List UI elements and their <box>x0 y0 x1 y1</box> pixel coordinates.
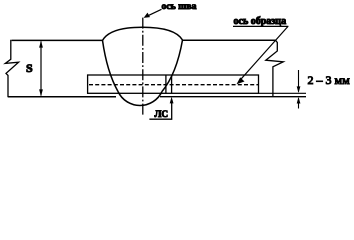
s top arrowhead <box>39 41 43 48</box>
dimension s line with arrows <box>40 42 42 96</box>
leader for ось шва <box>147 9 162 16</box>
plate bottom surface line (left of weld root) <box>8 96 116 98</box>
weld root arc (penetration bead) <box>118 92 162 106</box>
dimension 2-3 mm upper line <box>298 70 300 92</box>
right break (zigzag) line <box>266 40 284 97</box>
2-3 mm up arrowhead <box>297 97 301 104</box>
fusion line tick 1 <box>165 75 167 94</box>
specimen bottom line extension to dimension <box>259 92 307 94</box>
svg-text:ось шва: ось шва <box>162 1 197 12</box>
left break (zigzag) line <box>5 40 18 97</box>
leader for ось образца <box>239 26 288 81</box>
arrowhead of ЛС leader <box>170 97 174 104</box>
svg-text:S: S <box>26 61 33 75</box>
fusion line tick 2 <box>171 75 173 94</box>
svg-text:2 – 3 мм: 2 – 3 мм <box>308 73 351 87</box>
weld left fusion boundary <box>103 40 119 91</box>
weld axis centerline (dash-dot) <box>142 18 144 117</box>
s bottom arrowhead <box>39 89 43 96</box>
weld right fusion boundary <box>162 40 183 92</box>
underline / bracket of ЛС <box>149 100 171 119</box>
plate bottom surface line (right of weld root) with dimension extension <box>160 96 306 98</box>
2-3 mm down arrowhead <box>297 86 301 93</box>
plate top surface line (right of weld) <box>183 39 276 41</box>
dimension 2-3 mm lower line <box>298 98 300 108</box>
underline of ось образца <box>233 25 288 27</box>
arrowhead of ось шва leader <box>144 13 150 18</box>
specimen dashed axis line <box>89 84 258 86</box>
svg-text:ось образца: ось образца <box>234 16 287 27</box>
plate top surface line (left of weld) <box>12 39 103 41</box>
weld cap (reinforcement) arc <box>103 27 183 40</box>
arrowhead of ось образца leader <box>237 77 245 84</box>
specimen rectangle <box>88 75 259 93</box>
